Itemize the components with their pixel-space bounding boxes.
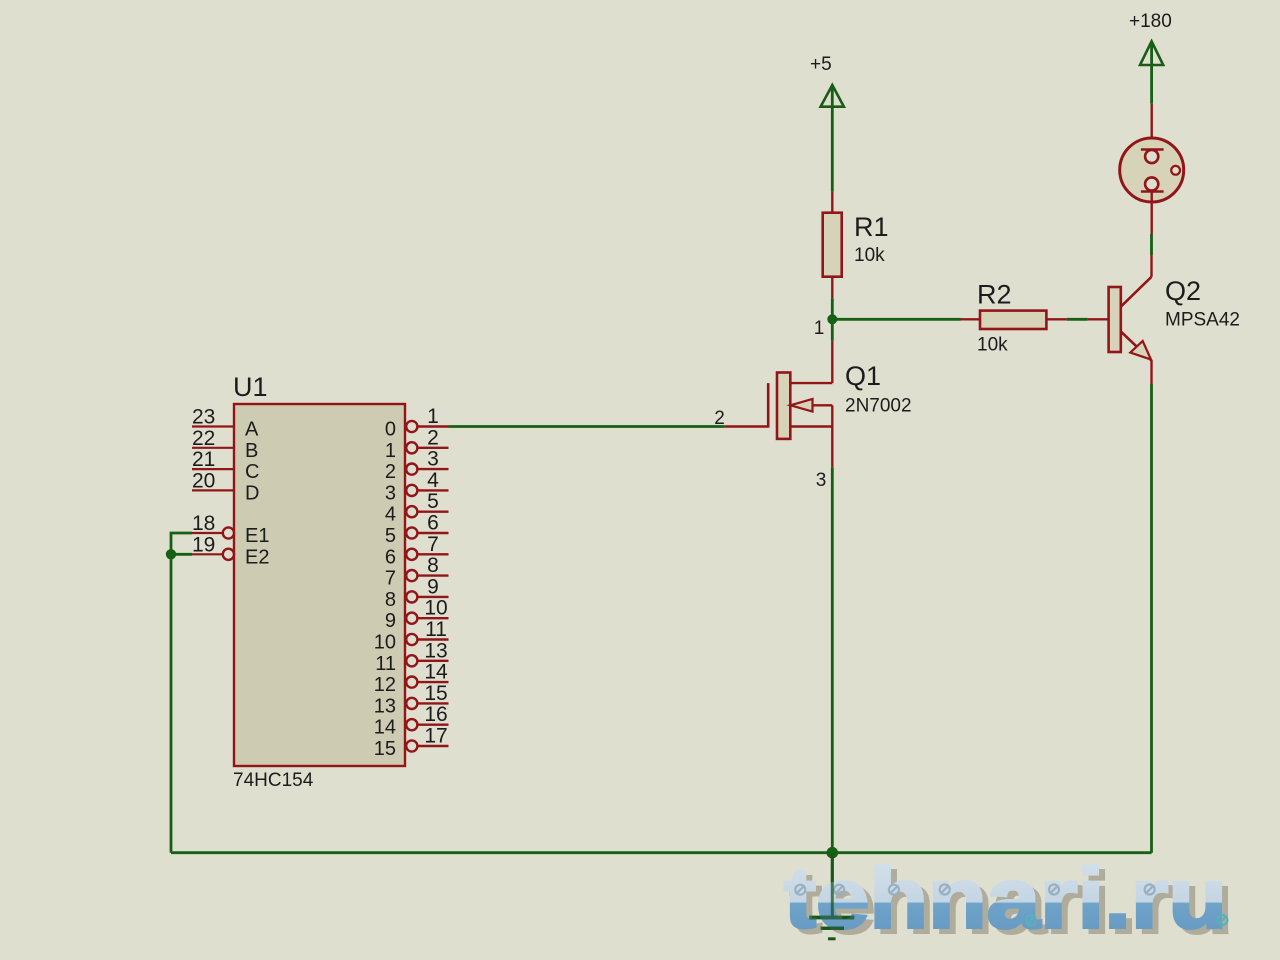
pin 23 (A): [192, 406, 259, 441]
svg-text:8: 8: [427, 554, 439, 577]
pin 21 (C): [192, 448, 259, 483]
transistor Q1 (2N7002 NMOS): [725, 341, 833, 468]
svg-text:E1: E1: [245, 525, 269, 547]
svg-text:5: 5: [385, 525, 396, 547]
svg-text:2: 2: [714, 408, 725, 429]
svg-text:3: 3: [816, 470, 827, 491]
wire bottom horizontal: [171, 851, 1152, 854]
svg-text:tehnari.ru: tehnari.ru: [784, 852, 1227, 947]
svg-text:4: 4: [385, 504, 396, 526]
svg-text:1: 1: [814, 318, 825, 339]
svg-text:Q1: Q1: [845, 361, 881, 391]
svg-text:5: 5: [427, 490, 439, 513]
svg-text:7: 7: [385, 568, 396, 590]
svg-text:20: 20: [192, 469, 215, 492]
wire Q2 collector to neon lamp: [1150, 234, 1153, 255]
wire U1 pin1 to Q1 gate: [449, 425, 725, 428]
ground wire visible through watermark: [809, 858, 854, 918]
U1 output names (inside, 0-15): [374, 419, 396, 761]
resistor R2: [961, 311, 1067, 329]
svg-text:2: 2: [427, 426, 439, 449]
svg-text:11: 11: [375, 653, 396, 675]
wire Q2 emitter down to bottom wire: [1150, 384, 1153, 853]
junction dot bottom: [827, 847, 839, 859]
svg-text:21: 21: [192, 448, 215, 471]
svg-text:13: 13: [374, 695, 396, 717]
svg-text:+5: +5: [810, 54, 832, 75]
svg-text:C: C: [245, 461, 259, 483]
svg-text:14: 14: [374, 717, 396, 739]
svg-text:13: 13: [424, 639, 447, 662]
svg-text:19: 19: [192, 533, 215, 556]
svg-text:16: 16: [424, 703, 447, 726]
power +5: [810, 54, 844, 192]
transistor Q2 (MPSA42 NPN): [1088, 255, 1152, 384]
svg-text:2N7002: 2N7002: [845, 396, 912, 417]
svg-text:1: 1: [427, 405, 439, 428]
svg-text:3: 3: [427, 448, 439, 471]
svg-text:E2: E2: [245, 546, 269, 568]
resistor R1: [823, 192, 842, 299]
svg-text:4: 4: [427, 469, 439, 492]
neon lamp: [1120, 104, 1184, 234]
svg-text:U1: U1: [233, 372, 268, 402]
ground: [809, 853, 854, 939]
junction dot E2: [166, 549, 176, 559]
svg-text:B: B: [245, 440, 258, 462]
pin 20 (D): [192, 469, 259, 504]
svg-text:7: 7: [427, 533, 439, 556]
svg-text:MPSA42: MPSA42: [1165, 310, 1240, 331]
svg-text:17: 17: [424, 725, 447, 748]
svg-text:15: 15: [374, 738, 396, 760]
wire E1/E2 left vertical: [171, 533, 192, 853]
svg-text:D: D: [245, 482, 259, 504]
svg-text:6: 6: [427, 512, 439, 535]
wire node1 right to R2: [832, 318, 960, 321]
pin 22 (B): [192, 427, 258, 462]
svg-text:1: 1: [385, 440, 396, 462]
svg-text:Q2: Q2: [1165, 276, 1201, 306]
svg-text:+180: +180: [1129, 11, 1172, 32]
svg-text:R1: R1: [854, 212, 889, 242]
svg-text:10: 10: [374, 632, 396, 654]
svg-text:2: 2: [385, 461, 396, 483]
IC U1 74HC154 body: [234, 404, 405, 766]
svg-text:22: 22: [192, 427, 215, 450]
wire R2 to Q2 base: [1067, 318, 1088, 321]
svg-text:10: 10: [424, 597, 447, 620]
U1 output pins group (pins 1-17, outputs 0-15): [406, 421, 448, 752]
wire node1 down to Q1 drain: [831, 319, 834, 340]
power +180: [1129, 11, 1172, 104]
junction dot node 1: [827, 314, 837, 324]
svg-text:9: 9: [427, 575, 439, 598]
wire R1 bottom to node 1: [831, 298, 834, 319]
svg-text:12: 12: [374, 674, 396, 696]
svg-text:15: 15: [424, 682, 447, 705]
svg-text:6: 6: [385, 546, 396, 568]
watermark tehnari.ru: [784, 852, 1233, 952]
svg-text:74HC154: 74HC154: [233, 770, 314, 791]
svg-text:11: 11: [425, 618, 447, 641]
svg-text:10k: 10k: [977, 335, 1008, 356]
pin 18 (E1): [192, 512, 269, 547]
svg-text:8: 8: [385, 589, 396, 611]
U1 output pin numbers (right, outside): [424, 405, 448, 748]
svg-text:R2: R2: [977, 280, 1012, 310]
svg-text:14: 14: [424, 661, 448, 684]
pin 19 (E2): [192, 533, 269, 568]
svg-text:9: 9: [385, 610, 396, 632]
svg-text:18: 18: [192, 512, 215, 535]
svg-text:0: 0: [385, 419, 396, 441]
svg-text:23: 23: [192, 406, 215, 429]
svg-text:A: A: [245, 419, 259, 441]
svg-text:10k: 10k: [854, 245, 885, 266]
wire Q1 source down to bottom wire: [831, 467, 834, 852]
svg-text:3: 3: [385, 482, 396, 504]
